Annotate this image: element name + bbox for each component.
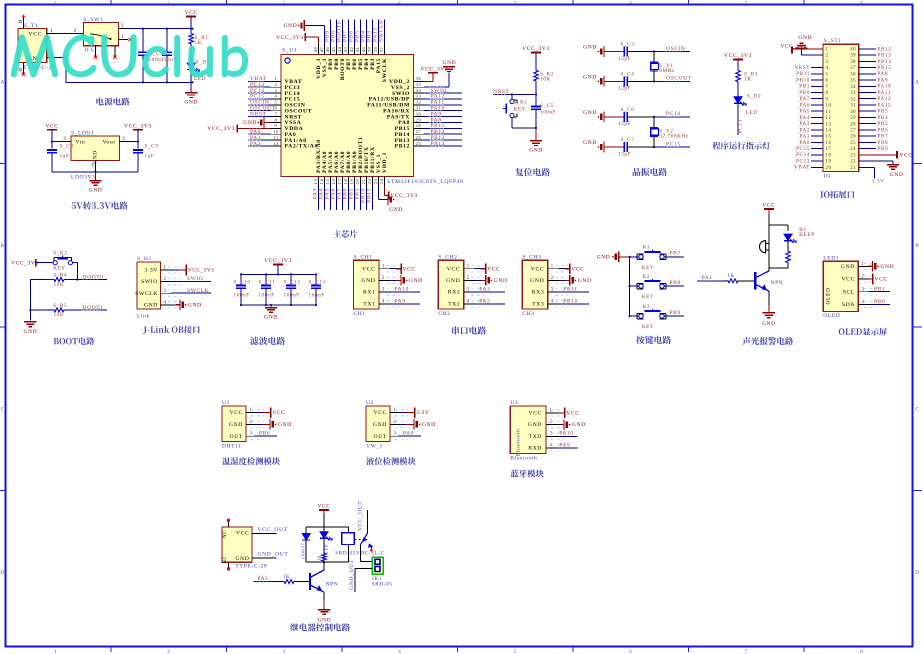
svg-text:PA9: PA9: [559, 442, 570, 448]
svg-text:10K: 10K: [54, 282, 65, 288]
svg-text:S_C10: S_C10: [234, 280, 251, 286]
capacitor S_C7 100nF: [138, 29, 165, 83]
wire VCC to R1: [190, 17, 192, 34]
svg-text:31: 31: [416, 106, 422, 111]
filter bottom rail: [240, 304, 317, 308]
wire SW1 pin3 to top rail: [119, 23, 194, 30]
svg-text:GND: GND: [583, 110, 597, 116]
power VCC of alarm circuit: [762, 203, 775, 226]
svg-text:1: 1: [50, 28, 53, 34]
svg-text:TXD: TXD: [529, 434, 543, 440]
svg-text:43: 43: [343, 47, 348, 53]
svg-text:3: 3: [275, 88, 278, 93]
svg-text:VCC_OUT: VCC_OUT: [358, 501, 364, 531]
switch S_SW1: [83, 17, 118, 59]
svg-text:GND: GND: [24, 329, 38, 335]
svg-text:NRST: NRST: [794, 65, 810, 71]
svg-text:SDA: SDA: [842, 302, 855, 308]
svg-text:PA2: PA2: [799, 127, 810, 133]
svg-text:10K: 10K: [54, 312, 65, 318]
svg-text:PB10: PB10: [563, 298, 578, 304]
svg-text:4: 4: [550, 443, 553, 448]
svg-text:NPN: NPN: [771, 280, 784, 286]
svg-text:OUT: OUT: [374, 434, 388, 440]
ST1 pin 1 / pin 40: [781, 44, 892, 54]
svg-text:LDO3V3: LDO3V3: [71, 175, 95, 181]
svg-text:22: 22: [367, 179, 372, 185]
svg-text:SWIO: SWIO: [187, 276, 203, 282]
capacitor S_C11 100nF: [259, 274, 276, 305]
U1 pin 29 PA8: [398, 116, 462, 126]
U1 pin 4 PC15: [248, 93, 300, 103]
svg-text:PB11: PB11: [563, 287, 577, 293]
svg-text:12pF: 12pF: [618, 56, 631, 62]
CH1 pin 4 TX1: [363, 298, 420, 307]
U1 pin 6 OSCOUT: [248, 105, 312, 115]
power VCC_3V3 of BOOT circuit: [11, 259, 53, 267]
caption J-Link OB interface: [143, 326, 200, 334]
svg-text:IO: IO: [824, 173, 831, 179]
U1 pin 3 PC14: [248, 87, 300, 97]
svg-text:PB15: PB15: [878, 65, 892, 71]
svg-text:35: 35: [850, 79, 856, 84]
ST1 pin 19 / pin 22: [795, 158, 903, 178]
svg-text:2: 2: [164, 277, 167, 282]
svg-text:PA9: PA9: [878, 78, 889, 84]
resistor S_R4 10K: [30, 273, 77, 288]
svg-text:S_R4: S_R4: [53, 273, 67, 279]
svg-text:GND: GND: [443, 60, 457, 66]
svg-text:1uF: 1uF: [145, 154, 155, 160]
ST1 pin 13 / pin 28: [798, 121, 888, 128]
svg-text:GND: GND: [762, 321, 776, 327]
svg-text:S_ST1: S_ST1: [824, 38, 842, 44]
svg-text:3: 3: [283, 0, 286, 5]
svg-text:GND: GND: [572, 422, 586, 428]
svg-text:PB11: PB11: [796, 71, 810, 77]
svg-text:PC14: PC14: [666, 111, 681, 117]
capacitor S_C9 1uF: [133, 144, 158, 172]
ST1 pin 3 / pin 38: [826, 58, 892, 65]
svg-text:GND: GND: [144, 302, 158, 308]
svg-text:GND: GND: [583, 140, 597, 146]
svg-text:3.3V: 3.3V: [144, 268, 158, 274]
connector S_T1 (TYPE-C-2P power input): [18, 14, 56, 76]
svg-text:VCC: VCC: [185, 10, 198, 16]
svg-text:32.768KHz: 32.768KHz: [659, 133, 689, 139]
U1 pin 17 PA7/A0: [337, 151, 346, 210]
svg-text:OSCIN: OSCIN: [666, 46, 686, 52]
svg-text:1: 1: [121, 34, 124, 40]
svg-text:BOOT1: BOOT1: [83, 305, 104, 311]
svg-text:GND: GND: [841, 264, 855, 270]
ST1 pin 8 / pin 33: [798, 89, 891, 96]
ground GND of alarm circuit: [762, 305, 776, 327]
svg-text:VCC: VCC: [230, 410, 244, 416]
caption serial port circuit: [452, 326, 486, 334]
relay switch armature and contacts: [354, 501, 372, 552]
svg-text:GND: GND: [881, 264, 895, 270]
svg-text:8: 8: [860, 650, 863, 654]
svg-text:VCC: VCC: [29, 31, 43, 37]
svg-text:K2: K2: [643, 274, 651, 280]
svg-text:30: 30: [850, 110, 856, 115]
svg-text:40: 40: [361, 47, 366, 53]
svg-text:U3: U3: [510, 400, 518, 406]
svg-text:GND: GND: [318, 618, 332, 624]
svg-text:15: 15: [826, 135, 832, 140]
svg-text:24: 24: [379, 179, 384, 185]
crystal S_Y1 8MHz: [650, 52, 675, 82]
svg-text:S_T1: S_T1: [24, 23, 38, 29]
svg-text:12: 12: [826, 116, 832, 121]
svg-text:24: 24: [850, 147, 856, 152]
svg-text:GND: GND: [243, 120, 257, 126]
svg-text:34: 34: [850, 85, 856, 90]
svg-text:1: 1: [91, 163, 94, 169]
ground GND of BOOT circuit: [24, 321, 36, 323]
caption sound-light alarm circuit: [743, 337, 794, 345]
serial header S_CH1: [354, 254, 380, 317]
U1 pin 22 PB11/RX: [367, 146, 376, 210]
H1 pin 2 SWIO: [141, 276, 211, 285]
svg-text:PA3: PA3: [799, 121, 810, 127]
svg-text:40: 40: [850, 48, 856, 53]
svg-text:1K: 1K: [283, 574, 291, 580]
svg-text:8MHz: 8MHz: [659, 68, 675, 74]
svg-text:1: 1: [394, 408, 397, 413]
U1 pin 2 GND: [229, 419, 292, 430]
svg-text:GND: GND: [188, 302, 202, 308]
wire armature to JK1 pin 1: [360, 545, 372, 562]
caption OLED display: [839, 328, 887, 336]
svg-text:11: 11: [273, 135, 279, 140]
U1 pin 7 NRST: [248, 111, 302, 121]
key circuit left bus: [629, 256, 631, 318]
svg-text:S_C5: S_C5: [540, 103, 554, 109]
svg-text:PA2: PA2: [250, 141, 261, 147]
net label OSCOUT: [653, 75, 692, 83]
svg-text:TX3: TX3: [532, 301, 544, 307]
svg-text:NC: NC: [223, 530, 228, 538]
svg-text:12pF: 12pF: [618, 86, 631, 92]
svg-text:5: 5: [826, 72, 829, 77]
svg-text:BOOT0: BOOT0: [83, 274, 104, 280]
svg-text:TYPE-C-2P: TYPE-C-2P: [235, 563, 267, 569]
svg-text:S_U1: S_U1: [282, 48, 297, 54]
svg-text:36: 36: [416, 76, 422, 81]
svg-text:S_CH3: S_CH3: [522, 254, 541, 260]
svg-text:100nF: 100nF: [149, 57, 165, 63]
H1 pin 4 GND: [144, 300, 202, 311]
CH3 pin 4 TX3: [532, 298, 589, 307]
capacitor S_C1 10uF: [162, 29, 177, 83]
serial header S_CH2: [438, 254, 464, 317]
H1 pin 1 3.3V: [144, 265, 214, 276]
U1 pin 25 PB12: [395, 140, 462, 150]
U2 pin 2 GND: [373, 419, 436, 430]
U1 pin 36 VDD_2: [389, 66, 448, 85]
resistor of alarm branch: [769, 251, 790, 268]
svg-text:S_C3: S_C3: [621, 42, 635, 48]
svg-text:1: 1: [164, 266, 167, 271]
U1 pin 1 VBAT: [248, 75, 302, 85]
svg-text:GND_OUT: GND_OUT: [257, 552, 288, 558]
svg-text:VCC: VCC: [566, 411, 579, 417]
svg-text:32: 32: [416, 100, 422, 105]
capacitor S_C5 100nF: [531, 95, 556, 129]
svg-text:38: 38: [373, 47, 378, 53]
svg-text:23: 23: [373, 179, 378, 185]
svg-text:VCC_3V3: VCC_3V3: [724, 53, 752, 59]
svg-text:4: 4: [382, 299, 385, 304]
svg-text:1: 1: [250, 408, 253, 413]
ST1 pin 14 / pin 27: [798, 127, 888, 134]
capacitor S_C6 12pF: [583, 107, 654, 127]
serial header S_CH3: [522, 254, 548, 317]
svg-text:GND: GND: [229, 422, 243, 428]
svg-text:21: 21: [361, 179, 366, 185]
svg-text:GND: GND: [530, 278, 544, 284]
svg-text:3: 3: [121, 23, 124, 29]
svg-text:VCC: VCC: [875, 277, 888, 283]
svg-text:VCC_3V3: VCC_3V3: [11, 260, 39, 266]
module U1 (DHT11): [222, 400, 246, 450]
svg-text:PB13: PB13: [878, 53, 892, 59]
capacitor S_C8 1uF: [47, 144, 74, 172]
caption reset circuit: [515, 168, 550, 176]
svg-text:3: 3: [63, 136, 66, 142]
svg-text:3: 3: [394, 432, 397, 437]
resistor S_R3 1K: [736, 70, 758, 96]
svg-text:PA12: PA12: [878, 96, 892, 102]
svg-text:29: 29: [850, 116, 856, 121]
svg-text:2: 2: [467, 276, 470, 281]
push button K3 KEY: [630, 304, 684, 330]
bottom rail of power circuit: [66, 81, 194, 83]
svg-text:28: 28: [850, 122, 856, 127]
svg-text:PB9: PB9: [878, 146, 889, 152]
svg-text:GND: GND: [284, 23, 298, 29]
svg-text:1: 1: [550, 408, 553, 413]
svg-text:5: 5: [514, 0, 517, 5]
ST1 pin 17 / pin 24: [795, 145, 888, 152]
svg-text:2: 2: [826, 54, 829, 59]
net label BOOT0: [77, 274, 107, 281]
svg-text:17: 17: [826, 147, 832, 152]
U1 pin 39 PB3: [367, 20, 376, 70]
svg-text:32: 32: [850, 97, 856, 102]
ground GND of LDO circuit: [89, 180, 101, 182]
svg-text:S_C6: S_C6: [621, 107, 635, 113]
svg-text:VCC_3V3: VCC_3V3: [124, 124, 152, 130]
net VCC_OUT from TYPE-C: [252, 527, 288, 533]
svg-text:LED: LED: [746, 110, 758, 116]
svg-text:NC: NC: [223, 556, 228, 564]
svg-text:3: 3: [467, 288, 470, 293]
svg-text:1uF: 1uF: [60, 154, 70, 160]
svg-text:7: 7: [745, 650, 748, 654]
svg-text:36: 36: [850, 72, 856, 77]
bottom wire of reset circuit: [512, 127, 537, 141]
capacitor S_C3 12pF: [583, 42, 654, 62]
svg-text:S_CH2: S_CH2: [438, 254, 457, 260]
regulator S_LDO1 LDO3V3: [62, 130, 138, 180]
svg-text:16: 16: [826, 141, 832, 146]
caption bluetooth module: [511, 470, 544, 478]
svg-text:39: 39: [850, 54, 856, 59]
svg-text:4: 4: [826, 66, 829, 71]
svg-text:8: 8: [860, 0, 863, 5]
svg-text:PA5: PA5: [257, 576, 268, 582]
module U2 (YW_J): [366, 400, 390, 450]
svg-text:GND: GND: [373, 422, 387, 428]
svg-text:VCC: VCC: [900, 152, 913, 158]
MCUclub watermark: [11, 34, 248, 77]
svg-text:PB12: PB12: [878, 46, 892, 52]
svg-text:Vin: Vin: [75, 139, 85, 145]
svg-text:GND: GND: [184, 100, 198, 106]
svg-text:PA9: PA9: [395, 298, 406, 304]
svg-text:2: 2: [550, 420, 553, 425]
power VCC_3V3 of filter circuit: [264, 258, 292, 274]
svg-text:PA15: PA15: [878, 102, 892, 108]
svg-text:PC15: PC15: [666, 141, 681, 147]
svg-text:VCC_3V3: VCC_3V3: [207, 126, 235, 132]
svg-text:5: 5: [275, 100, 278, 105]
ST1 pin 7 / pin 34: [798, 83, 891, 90]
transistor Q2 NPN of relay: [310, 570, 338, 600]
U1 pin 40 PB4: [361, 20, 370, 70]
LED S_D1: [187, 60, 210, 93]
svg-text:KEY: KEY: [642, 324, 654, 330]
CH3 pin 2 GND: [530, 275, 591, 286]
svg-text:18: 18: [826, 153, 832, 158]
svg-text:1K: 1K: [195, 40, 203, 46]
LED1 pin 1 GND: [841, 261, 894, 272]
bottom rail of LDO circuit: [52, 171, 138, 181]
svg-text:100nF: 100nF: [234, 293, 250, 299]
U1 pin 1 VCC: [230, 407, 286, 418]
svg-text:S_H1: S_H1: [137, 256, 152, 262]
svg-text:4: 4: [275, 94, 278, 99]
alarm top junction wires: [769, 225, 788, 240]
svg-text:14: 14: [826, 129, 832, 134]
svg-text:U2: U2: [366, 400, 374, 406]
svg-text:S_C13: S_C13: [309, 280, 326, 286]
svg-text:VBAT: VBAT: [794, 165, 810, 171]
net label PC15: [653, 140, 690, 148]
resistor S_R1 1K: [189, 34, 209, 63]
svg-text:S_C8: S_C8: [60, 144, 74, 150]
svg-text:12pF: 12pF: [618, 151, 631, 157]
capacitor S_C4 12pF: [583, 71, 654, 91]
push button K1 KEY: [630, 245, 684, 271]
svg-text:NPN: NPN: [326, 582, 339, 588]
caption BOOT circuit: [54, 337, 95, 345]
caption power circuit: [96, 98, 129, 106]
ST1 pin 16 / pin 25: [798, 139, 888, 146]
LED1 pin 4 SDA: [842, 299, 890, 308]
main chip U1 STM32F103C8T6 body: [281, 48, 463, 185]
svg-text:22: 22: [850, 160, 856, 165]
push button K2 KEY: [630, 274, 684, 300]
svg-text:TX1: TX1: [363, 301, 375, 307]
svg-text:5: 5: [514, 650, 517, 654]
svg-text:26: 26: [850, 135, 856, 140]
CH1 pin 3 RX1: [363, 287, 420, 296]
svg-text:SWCLK: SWCLK: [379, 19, 385, 42]
svg-text:S_C11: S_C11: [259, 280, 276, 286]
svg-text:VCC: VCC: [447, 266, 461, 272]
svg-text:27: 27: [416, 129, 422, 134]
svg-text:PA3: PA3: [479, 287, 490, 293]
svg-text:PA10: PA10: [395, 287, 409, 293]
U1 pin 21 PB10/TX: [361, 146, 370, 210]
svg-text:RX2: RX2: [448, 290, 461, 296]
svg-text:K3: K3: [643, 304, 651, 310]
svg-text:44: 44: [337, 47, 342, 53]
svg-text:2: 2: [167, 650, 170, 654]
svg-text:1: 1: [54, 650, 57, 654]
net label OSCIN: [653, 45, 690, 53]
U1 pin 24 VDD_1: [379, 152, 418, 200]
caption filter circuit: [250, 337, 285, 345]
svg-text:GND: GND: [529, 148, 543, 154]
transistor Q NPN of alarm: [755, 268, 783, 305]
ST1 pin 6 / pin 35: [795, 77, 888, 84]
CH3 pin 1 VCC: [531, 263, 585, 274]
svg-text:1: 1: [382, 264, 385, 269]
svg-text:GND: GND: [409, 278, 423, 284]
svg-text:OLED: OLED: [826, 287, 832, 304]
svg-text:VCC: VCC: [762, 203, 775, 209]
caption temperature-humidity module: [222, 457, 280, 465]
U1 pin 32 PA11/USB/DM: [367, 99, 462, 109]
U1 pin 27 PB14: [395, 128, 462, 138]
svg-text:4: 4: [467, 299, 470, 304]
U1 pin 26 PB13: [395, 134, 462, 144]
U1 pin 46 PB9: [325, 20, 334, 70]
svg-text:48: 48: [313, 47, 318, 53]
svg-text:6: 6: [629, 0, 632, 5]
power VCC_3V3 of indicator: [724, 53, 752, 70]
svg-text:21: 21: [850, 166, 856, 171]
LED1 pin 2 VCC: [842, 274, 888, 285]
capacitor S_C7 12pF: [583, 137, 654, 157]
svg-text:RX1: RX1: [363, 290, 376, 296]
svg-text:TX2: TX2: [448, 301, 460, 307]
svg-text:NRST: NRST: [250, 111, 266, 117]
capacitor S_C13 100nF: [309, 274, 326, 305]
svg-text:2: 2: [167, 0, 170, 5]
svg-text:3: 3: [826, 60, 829, 65]
svg-text:VDD_1: VDD_1: [382, 152, 388, 173]
svg-text:GND: GND: [89, 188, 103, 194]
ground GND of relay circuit: [318, 600, 332, 624]
caption key circuit: [636, 336, 671, 344]
CH1 pin 1 VCC: [362, 263, 416, 274]
svg-text:19: 19: [349, 179, 354, 185]
relay LED branch: [320, 527, 332, 554]
svg-text:PB6: PB6: [878, 127, 889, 133]
capacitor S_C10 100nF: [234, 274, 251, 305]
svg-text:PA6: PA6: [799, 102, 810, 108]
LED inside B1 BEEP branch: [784, 227, 815, 251]
svg-text:D: D: [0, 571, 4, 576]
LED1 pin 3 SCL: [843, 286, 890, 295]
svg-text:10K: 10K: [540, 77, 551, 83]
